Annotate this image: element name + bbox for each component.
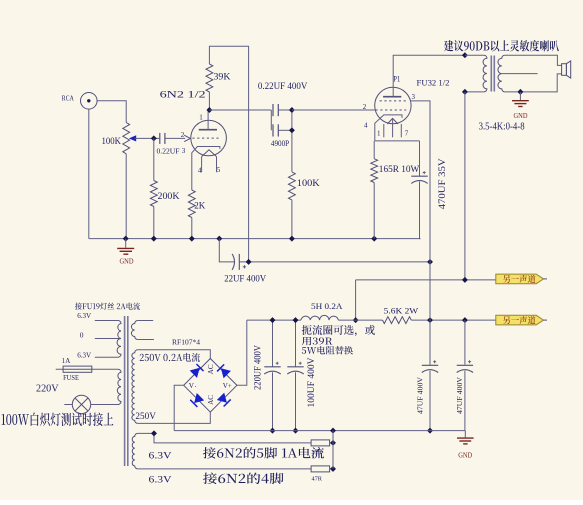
transformer OPT primary — [465, 54, 484, 56]
wire cathode node — [375, 140, 420, 142]
resistor R 39K plate load — [208, 92, 210, 110]
wire top rail 39K to B+ dropper — [209, 46, 248, 262]
wire secondary top to speaker — [505, 55, 562, 65]
resistor R 5.6K 2W — [383, 317, 412, 324]
bridge rectifier RF107*4 diamond — [184, 359, 237, 413]
svg-text:6N2 1/2: 6N2 1/2 — [160, 89, 207, 99]
wire choke output stub — [355, 280, 357, 320]
svg-text:4: 4 — [364, 121, 368, 129]
svg-text:470UF 35V: 470UF 35V — [437, 158, 447, 210]
svg-text:0.22UF 400V: 0.22UF 400V — [258, 82, 308, 92]
svg-text:100K: 100K — [297, 179, 320, 189]
capacitor 0.22UF 400V coupling upper — [272, 104, 274, 116]
FU32 screen grid dashed pin3 — [380, 100, 407, 102]
junction screen feed node — [427, 259, 433, 265]
label 100W lamp note — [1, 413, 113, 426]
wire pot bottom to ground — [125, 154, 127, 239]
svg-text:GND: GND — [120, 257, 135, 266]
transformer OPT core — [490, 56, 492, 92]
wire 5.6K to screen node and tag — [411, 319, 495, 321]
svg-text:165R 10W: 165R 10W — [379, 165, 420, 175]
capacitor 0.22UF coupling — [159, 133, 161, 144]
resistor R 200K grid leak — [153, 138, 155, 180]
svg-text:100UF 400V: 100UF 400V — [306, 357, 316, 408]
cap body — [457, 364, 473, 366]
svg-text:0: 0 — [80, 330, 84, 339]
wire 6.3V winding top tap — [138, 433, 311, 443]
node secondary ground junction — [517, 89, 523, 95]
svg-text:V+: V+ — [223, 382, 232, 390]
svg-text:1A: 1A — [62, 357, 71, 365]
svg-text:250V: 250V — [135, 411, 156, 421]
cap body — [422, 364, 438, 366]
resistor R 47R lower — [311, 466, 330, 472]
svg-text:39K: 39K — [214, 73, 231, 83]
6N2 heater pins 4 5 — [201, 157, 203, 173]
tube FU32 1/2 envelope — [375, 87, 411, 123]
svg-text:6.3V: 6.3V — [149, 475, 172, 485]
transformer PT 220V primary winding — [117, 369, 121, 404]
lamp 100W test bulb — [64, 404, 72, 406]
ground symbol GND top — [125, 239, 127, 248]
cap body — [287, 366, 303, 368]
FU32 cathode pin4 — [375, 115, 402, 141]
6N2 grid dashed — [192, 137, 220, 139]
junction B+ dropper node — [246, 259, 252, 265]
junction dots on ground bus — [123, 236, 129, 242]
svg-text:7: 7 — [405, 129, 409, 137]
net tag other channel screen — [496, 315, 544, 325]
net tag other channel B+ — [496, 274, 544, 284]
label use 39R — [302, 337, 332, 345]
cap body — [264, 366, 280, 368]
wire OPT primary bottom to B+ — [464, 92, 466, 280]
svg-text:47UF 400V: 47UF 400V — [416, 376, 425, 414]
svg-text:GND: GND — [514, 111, 529, 120]
svg-text:3: 3 — [412, 93, 416, 101]
svg-text:4: 4 — [198, 166, 202, 174]
transformer PT core — [124, 316, 126, 466]
svg-text:200K: 200K — [158, 191, 181, 201]
wire RCA shield to ground bus — [88, 109, 90, 239]
capacitor 220UF 400V main filter — [272, 320, 274, 367]
svg-text:3: 3 — [182, 147, 186, 155]
label 6N2 pin4 heater — [203, 473, 283, 485]
FU32 plate and lead P1 — [383, 96, 401, 98]
ground symbol GND psu — [464, 431, 466, 438]
capacitor 4900P lower — [272, 124, 274, 136]
wire plate to coupling caps — [209, 109, 271, 111]
6N2 heater — [202, 150, 217, 157]
diode bridge top-left — [190, 364, 204, 378]
resistor R 47R upper — [311, 440, 330, 446]
wire wiper to input node — [135, 137, 160, 139]
svg-text:0.22UF: 0.22UF — [157, 147, 180, 156]
6N2 plate — [199, 129, 217, 131]
junction screen rail dots — [427, 317, 433, 323]
svg-text:220UF 400V: 220UF 400V — [252, 345, 262, 390]
svg-text:47R: 47R — [312, 475, 323, 482]
wire secondary bottom to speaker — [505, 74, 562, 92]
capacitor 22UF 400V decoupling — [219, 239, 234, 262]
FU32 heater — [387, 118, 398, 124]
svg-text:RCA: RCA — [62, 94, 75, 102]
ground symbol GND speaker — [519, 92, 521, 100]
svg-text:1: 1 — [199, 114, 203, 122]
svg-text:1: 1 — [377, 129, 381, 137]
label choke optional — [302, 325, 375, 336]
transformer PT 6.3V heater winding 6N2 — [132, 433, 137, 469]
connector RCA input jack — [81, 93, 98, 110]
cap body — [411, 175, 427, 177]
svg-text:5H 0.2A: 5H 0.2A — [311, 301, 343, 311]
wire PSU ground line — [174, 430, 465, 432]
wire bridge V+ to filter rail — [237, 320, 247, 385]
junction 100UF taps — [293, 317, 299, 323]
node input junction — [151, 135, 157, 141]
label speaker advice — [444, 40, 559, 52]
wire screen filter left 47UF — [429, 262, 431, 365]
wire bridge V- to ground line — [174, 385, 184, 430]
FU32 control grid dashed pin2 — [376, 109, 407, 111]
wire HV bottom tap to bridge AC2 — [138, 412, 211, 423]
svg-text:AC: AC — [207, 395, 215, 405]
resistor R 2K cathode — [188, 190, 195, 218]
tube 6N2 1/2 triode envelope — [191, 120, 227, 156]
label FU19 heater — [75, 302, 140, 309]
transformer OPT secondary — [498, 55, 505, 92]
diode bridge bottom-right — [217, 393, 231, 407]
svg-text:22UF 400V: 22UF 400V — [224, 274, 266, 284]
label 250V winding — [140, 353, 200, 362]
svg-text:2: 2 — [363, 103, 367, 111]
svg-text:P1: P1 — [393, 75, 400, 84]
wire grid line to FU32 pin2 — [292, 109, 375, 111]
svg-text:FU32 1/2: FU32 1/2 — [417, 78, 450, 88]
wire cap to 6N2 grid with arrow — [165, 137, 185, 139]
wire 6.3V winding bottom tap — [138, 468, 311, 470]
svg-text:220V: 220V — [36, 384, 59, 395]
label 5W resistor replace — [302, 346, 353, 355]
wire B+ screen feed — [239, 261, 430, 263]
diode bridge top-right — [217, 364, 231, 378]
svg-text:100K: 100K — [102, 137, 122, 147]
svg-text:RF107*4: RF107*4 — [172, 337, 200, 346]
capacitor 470UF 35V cathode bypass — [419, 141, 421, 176]
transformer PT HV 250V winding — [132, 350, 138, 424]
wire right 47UF top — [464, 320, 466, 365]
svg-text:5.6K 2W: 5.6K 2W — [384, 305, 419, 315]
node 6N2 plate junction — [206, 107, 212, 113]
svg-text:4900P: 4900P — [271, 139, 290, 148]
svg-text:47UF 400V: 47UF 400V — [455, 376, 464, 414]
wire B+ to OPT and other channel — [356, 279, 496, 281]
svg-text:6.3V: 6.3V — [77, 311, 92, 320]
svg-text:GND: GND — [458, 450, 473, 459]
wire cap bracket left — [270, 110, 272, 130]
resistor R 165R 10W cathode — [373, 141, 375, 159]
capacitor 100UF 400V filter — [295, 320, 297, 367]
FU32 heater pins 1 7 — [383, 124, 385, 137]
wire RCA to volume pot top — [97, 101, 126, 123]
svg-text:3.5-4K:0-4-8: 3.5-4K:0-4-8 — [479, 122, 525, 133]
node OPT primary top — [462, 52, 468, 58]
svg-text:2: 2 — [181, 131, 185, 139]
wire ground bus — [89, 238, 421, 240]
svg-text:6.3V: 6.3V — [77, 350, 92, 359]
diode bridge bottom-left — [190, 393, 204, 407]
svg-text:5: 5 — [217, 166, 221, 174]
wire secondary middle tap — [502, 73, 538, 75]
wire HV top tap to bridge AC1 — [138, 350, 211, 359]
potentiometer wiper arrow — [129, 135, 136, 141]
svg-text:2K: 2K — [194, 202, 205, 212]
wire caps right to grid node — [278, 109, 292, 111]
wire 47R common to ground — [332, 431, 334, 469]
resistor R 100K FU32 grid leak — [289, 172, 296, 200]
svg-text:FUSE: FUSE — [63, 374, 79, 382]
transformer PT heater winding 6.3-0-6.3 — [117, 321, 121, 358]
inductor 5H 0.2A choke — [247, 319, 301, 321]
fuse 1A — [56, 368, 118, 370]
6N2 cathode — [192, 147, 220, 191]
junction 220UF taps — [270, 317, 276, 323]
label 6N2 pin5 heater — [203, 447, 324, 459]
transformer PT FU19 heater winding right — [131, 321, 137, 340]
svg-text:6.3V: 6.3V — [149, 452, 172, 462]
svg-text:.: . — [195, 381, 197, 389]
speaker — [562, 64, 567, 76]
wire choke to 5.6K — [338, 319, 382, 321]
svg-text:AC: AC — [207, 364, 215, 374]
potentiometer R 100K volume — [123, 123, 130, 154]
